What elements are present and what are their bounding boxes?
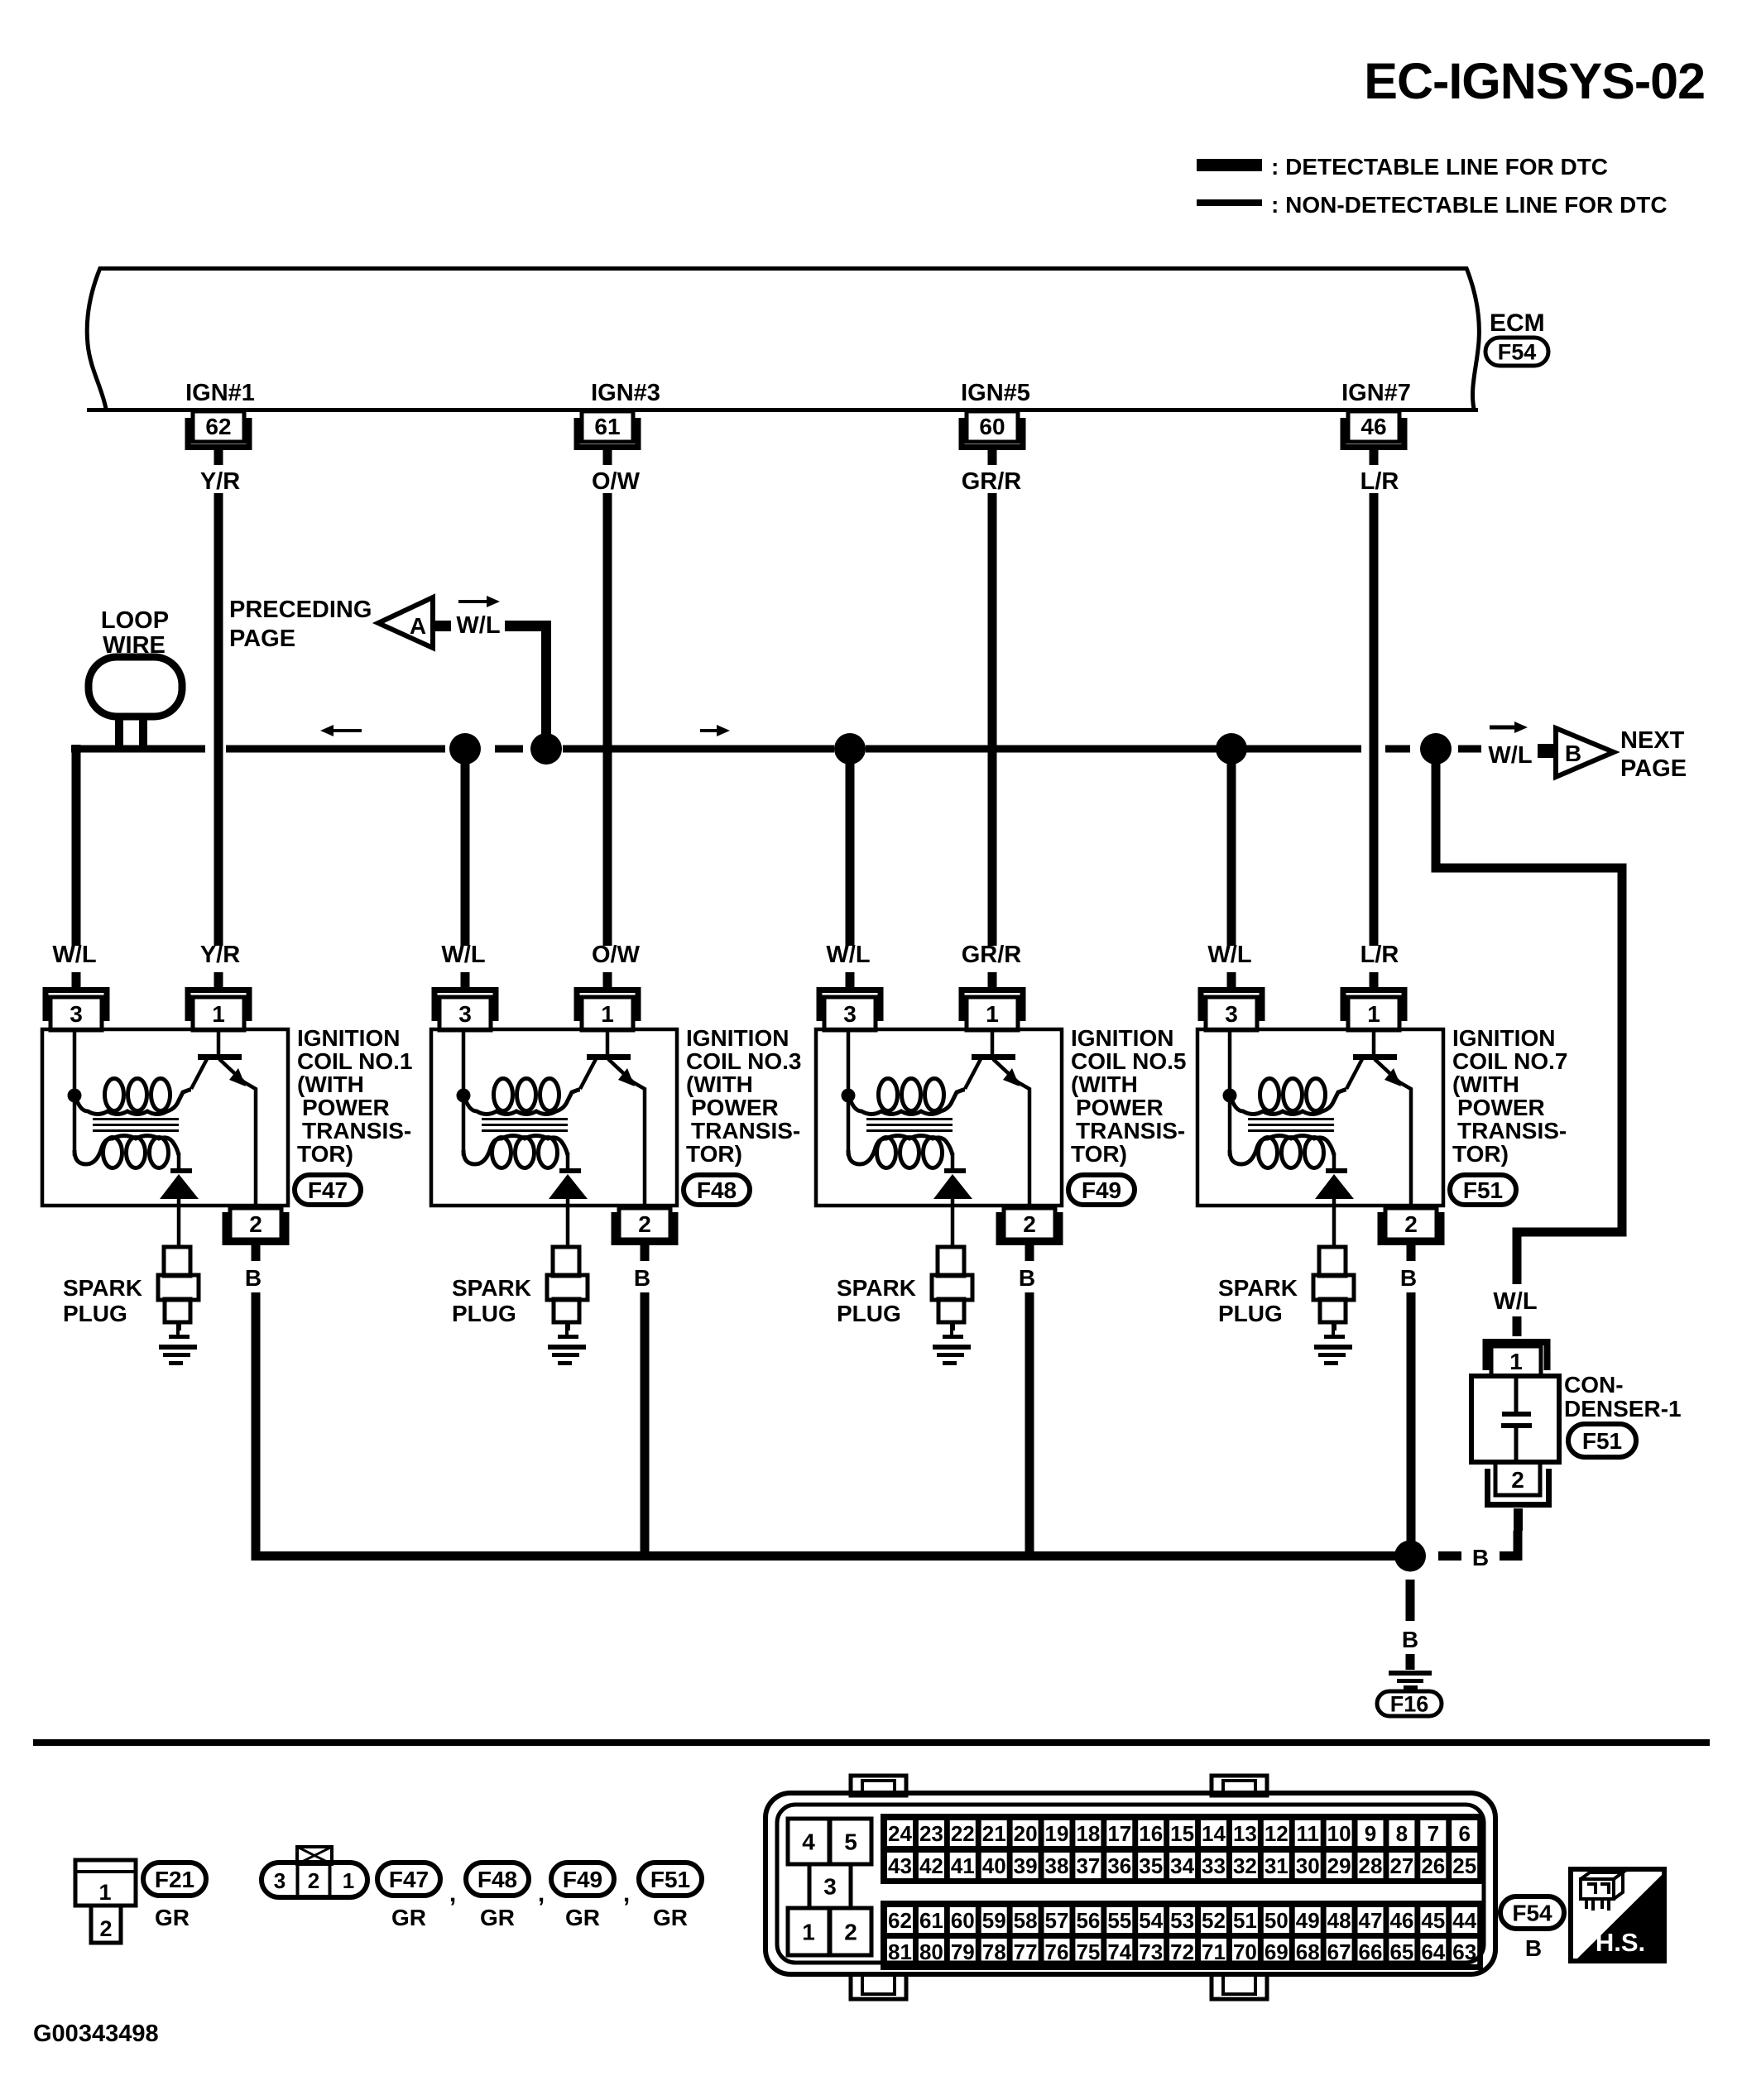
svg-text:A: A (410, 613, 426, 639)
svg-text:3: 3 (458, 1001, 472, 1027)
svg-text:30: 30 (1296, 1853, 1320, 1878)
svg-text:SPARK: SPARK (837, 1275, 916, 1301)
svg-text:2: 2 (638, 1211, 651, 1237)
svg-text:41: 41 (951, 1853, 975, 1878)
svg-text:37: 37 (1076, 1853, 1100, 1878)
svg-text:GR: GR (155, 1905, 190, 1930)
svg-text:IGN#5: IGN#5 (961, 380, 1030, 406)
svg-text:F54: F54 (1512, 1901, 1552, 1926)
svg-text:2: 2 (249, 1211, 262, 1237)
svg-text:TRANSIS-: TRANSIS- (302, 1118, 411, 1143)
svg-text:62: 62 (888, 1908, 912, 1933)
svg-text:80: 80 (919, 1939, 943, 1964)
svg-text:F51: F51 (650, 1867, 690, 1892)
svg-text:65: 65 (1389, 1939, 1413, 1964)
svg-text:2: 2 (99, 1916, 112, 1941)
svg-text:8: 8 (1396, 1821, 1408, 1846)
svg-text:47: 47 (1359, 1908, 1383, 1933)
svg-text:,: , (623, 1880, 630, 1907)
svg-text:IGNITION: IGNITION (1071, 1025, 1173, 1051)
svg-text:39: 39 (1014, 1853, 1038, 1878)
svg-text:51: 51 (1233, 1908, 1257, 1933)
svg-text:F48: F48 (477, 1867, 517, 1892)
svg-text:56: 56 (1076, 1908, 1100, 1933)
svg-text:2: 2 (1023, 1211, 1036, 1237)
svg-text:21: 21 (982, 1821, 1006, 1846)
svg-text:38: 38 (1045, 1853, 1069, 1878)
svg-text:9: 9 (1365, 1821, 1376, 1846)
svg-text:16: 16 (1139, 1821, 1163, 1846)
svg-text:(WITH: (WITH (686, 1072, 753, 1097)
svg-text:B: B (1019, 1265, 1035, 1291)
svg-text:EC-IGNSYS-02: EC-IGNSYS-02 (1364, 53, 1705, 109)
svg-text:B: B (1565, 741, 1581, 766)
svg-text:13: 13 (1233, 1821, 1257, 1846)
svg-text:O/W: O/W (592, 942, 641, 968)
svg-text:COIL NO.1: COIL NO.1 (297, 1048, 413, 1074)
svg-text:3: 3 (274, 1868, 286, 1893)
svg-text:12: 12 (1265, 1821, 1289, 1846)
svg-text:COIL NO.7: COIL NO.7 (1452, 1048, 1568, 1074)
svg-text:2: 2 (1511, 1467, 1524, 1493)
svg-text:,: , (449, 1880, 456, 1907)
svg-text:3: 3 (843, 1001, 857, 1027)
svg-text:46: 46 (1360, 414, 1386, 439)
svg-text:1: 1 (986, 1001, 999, 1027)
svg-text:1: 1 (802, 1920, 815, 1945)
svg-text:F48: F48 (697, 1177, 737, 1203)
svg-text:1: 1 (343, 1868, 354, 1893)
svg-text:29: 29 (1327, 1853, 1351, 1878)
svg-text:F47: F47 (308, 1177, 348, 1203)
svg-text:2: 2 (308, 1868, 319, 1893)
svg-text:4: 4 (802, 1829, 815, 1855)
svg-text:F51: F51 (1463, 1177, 1503, 1203)
svg-text:TOR): TOR) (1452, 1141, 1509, 1167)
svg-text:POWER: POWER (302, 1095, 390, 1120)
svg-text:61: 61 (919, 1908, 943, 1933)
svg-text:1: 1 (1367, 1001, 1380, 1027)
svg-text:79: 79 (951, 1939, 975, 1964)
svg-text:1: 1 (1509, 1349, 1523, 1374)
svg-text:23: 23 (919, 1821, 943, 1846)
svg-text:IGN#3: IGN#3 (591, 380, 660, 406)
svg-text:L/R: L/R (1360, 468, 1399, 495)
svg-text:: NON-DETECTABLE LINE FOR DTC: : NON-DETECTABLE LINE FOR DTC (1271, 192, 1668, 218)
svg-text:46: 46 (1389, 1908, 1413, 1933)
svg-text:63: 63 (1452, 1939, 1476, 1964)
svg-text:COIL NO.3: COIL NO.3 (686, 1048, 802, 1074)
svg-text:F51: F51 (1582, 1428, 1622, 1454)
svg-text:3: 3 (70, 1001, 83, 1027)
svg-text:L/R: L/R (1360, 942, 1399, 968)
svg-text:F47: F47 (389, 1867, 429, 1892)
svg-text:IGNITION: IGNITION (1452, 1025, 1555, 1051)
svg-text:GR: GR (653, 1905, 688, 1930)
svg-text:36: 36 (1107, 1853, 1131, 1878)
svg-text:71: 71 (1202, 1939, 1226, 1964)
svg-text:5: 5 (844, 1829, 857, 1855)
svg-text:B: B (245, 1265, 262, 1291)
svg-text:33: 33 (1202, 1853, 1226, 1878)
svg-text:B: B (1400, 1265, 1417, 1291)
svg-text:GR: GR (565, 1905, 600, 1930)
svg-text:10: 10 (1327, 1821, 1351, 1846)
svg-text:F49: F49 (1082, 1177, 1121, 1203)
svg-text:(WITH: (WITH (297, 1072, 364, 1097)
svg-text:1: 1 (212, 1001, 225, 1027)
svg-text:27: 27 (1389, 1853, 1413, 1878)
svg-text:24: 24 (888, 1821, 912, 1846)
svg-text:DENSER-1: DENSER-1 (1564, 1396, 1682, 1422)
svg-text:GR/R: GR/R (962, 942, 1022, 968)
svg-text:1: 1 (601, 1001, 614, 1027)
svg-text:W/L: W/L (456, 612, 500, 639)
svg-text:W/L: W/L (1493, 1288, 1537, 1315)
svg-text:POWER: POWER (691, 1095, 779, 1120)
svg-text:60: 60 (951, 1908, 975, 1933)
svg-text:17: 17 (1107, 1821, 1131, 1846)
svg-text:81: 81 (888, 1939, 912, 1964)
svg-text:35: 35 (1139, 1853, 1163, 1878)
svg-text:SPARK: SPARK (1218, 1275, 1298, 1301)
svg-text:61: 61 (594, 414, 620, 439)
svg-text:48: 48 (1327, 1908, 1351, 1933)
svg-text:B: B (1525, 1935, 1542, 1961)
svg-text:2: 2 (1404, 1211, 1418, 1237)
svg-text:3: 3 (823, 1874, 837, 1900)
svg-text:3: 3 (1225, 1001, 1238, 1027)
svg-text:(WITH: (WITH (1071, 1072, 1138, 1097)
svg-text:32: 32 (1233, 1853, 1257, 1878)
svg-text:: DETECTABLE LINE FOR DTC: : DETECTABLE LINE FOR DTC (1271, 154, 1608, 180)
svg-text:64: 64 (1421, 1939, 1445, 1964)
svg-text:TRANSIS-: TRANSIS- (691, 1118, 800, 1143)
svg-text:TOR): TOR) (1071, 1141, 1127, 1167)
svg-text:TOR): TOR) (297, 1141, 353, 1167)
svg-text:53: 53 (1170, 1908, 1194, 1933)
svg-text:70: 70 (1233, 1939, 1257, 1964)
svg-text:NEXT: NEXT (1620, 727, 1685, 754)
svg-text:ECM: ECM (1490, 309, 1545, 337)
svg-text:PLUG: PLUG (1218, 1301, 1283, 1326)
svg-text:74: 74 (1107, 1939, 1131, 1964)
svg-text:19: 19 (1045, 1821, 1069, 1846)
svg-text:F49: F49 (563, 1867, 602, 1892)
svg-text:49: 49 (1296, 1908, 1320, 1933)
svg-text:F16: F16 (1390, 1692, 1429, 1717)
svg-text:40: 40 (982, 1853, 1006, 1878)
svg-text:57: 57 (1045, 1908, 1069, 1933)
svg-text:SPARK: SPARK (452, 1275, 531, 1301)
svg-text:TRANSIS-: TRANSIS- (1076, 1118, 1185, 1143)
svg-text:F54: F54 (1498, 340, 1537, 365)
svg-text:60: 60 (979, 414, 1005, 439)
svg-text:72: 72 (1170, 1939, 1194, 1964)
svg-text:IGN#7: IGN#7 (1341, 380, 1411, 406)
svg-text:78: 78 (982, 1939, 1006, 1964)
svg-text:58: 58 (1014, 1908, 1038, 1933)
svg-text:IGNITION: IGNITION (297, 1025, 400, 1051)
svg-text:45: 45 (1421, 1908, 1445, 1933)
svg-text:52: 52 (1202, 1908, 1226, 1933)
svg-text:14: 14 (1202, 1821, 1226, 1846)
svg-text:25: 25 (1452, 1853, 1476, 1878)
svg-text:PLUG: PLUG (837, 1301, 901, 1326)
svg-text:LOOP: LOOP (101, 607, 169, 634)
svg-text:31: 31 (1265, 1853, 1289, 1878)
svg-text:75: 75 (1076, 1939, 1100, 1964)
svg-text:68: 68 (1296, 1939, 1320, 1964)
svg-text:PAGE: PAGE (229, 626, 295, 652)
svg-text:GR/R: GR/R (962, 468, 1022, 495)
svg-text:PAGE: PAGE (1620, 755, 1687, 782)
svg-text:B: B (1402, 1627, 1418, 1652)
svg-text:2: 2 (844, 1920, 857, 1945)
svg-text:POWER: POWER (1076, 1095, 1164, 1120)
svg-text:Y/R: Y/R (200, 468, 240, 495)
svg-text:34: 34 (1170, 1853, 1194, 1878)
svg-text:W/L: W/L (1488, 742, 1532, 769)
svg-text:22: 22 (951, 1821, 975, 1846)
svg-text:66: 66 (1359, 1939, 1383, 1964)
svg-text:IGNITION: IGNITION (686, 1025, 789, 1051)
svg-text:TRANSIS-: TRANSIS- (1457, 1118, 1567, 1143)
svg-text:6: 6 (1458, 1821, 1470, 1846)
svg-text:50: 50 (1265, 1908, 1289, 1933)
svg-text:1: 1 (98, 1880, 111, 1905)
svg-text:18: 18 (1076, 1821, 1100, 1846)
svg-text:73: 73 (1139, 1939, 1163, 1964)
svg-text:44: 44 (1452, 1908, 1476, 1933)
svg-text:Y/R: Y/R (200, 942, 240, 968)
svg-text:26: 26 (1421, 1853, 1445, 1878)
svg-text:POWER: POWER (1457, 1095, 1545, 1120)
svg-text:69: 69 (1265, 1939, 1289, 1964)
svg-text:11: 11 (1296, 1821, 1319, 1846)
svg-text:15: 15 (1170, 1821, 1194, 1846)
svg-text:62: 62 (205, 414, 231, 439)
svg-text:76: 76 (1045, 1939, 1069, 1964)
svg-text:TOR): TOR) (686, 1141, 742, 1167)
svg-text:GR: GR (391, 1905, 426, 1930)
svg-text:(WITH: (WITH (1452, 1072, 1519, 1097)
svg-text:54: 54 (1139, 1908, 1163, 1933)
svg-text:77: 77 (1014, 1939, 1038, 1964)
svg-text:F21: F21 (155, 1867, 194, 1892)
svg-text:CON-: CON- (1564, 1372, 1624, 1398)
svg-text:B: B (1472, 1545, 1489, 1570)
svg-text:COIL NO.5: COIL NO.5 (1071, 1048, 1187, 1074)
svg-text:,: , (538, 1880, 545, 1907)
svg-text:59: 59 (982, 1908, 1006, 1933)
svg-text:20: 20 (1014, 1821, 1038, 1846)
svg-text:SPARK: SPARK (63, 1275, 142, 1301)
svg-text:PRECEDING: PRECEDING (229, 597, 372, 623)
svg-text:67: 67 (1327, 1939, 1351, 1964)
svg-text:55: 55 (1107, 1908, 1131, 1933)
svg-text:B: B (634, 1265, 650, 1291)
svg-text:PLUG: PLUG (452, 1301, 516, 1326)
svg-text:28: 28 (1359, 1853, 1383, 1878)
svg-text:43: 43 (888, 1853, 912, 1878)
svg-text:7: 7 (1428, 1821, 1439, 1846)
svg-text:GR: GR (480, 1905, 515, 1930)
svg-text:IGN#1: IGN#1 (185, 380, 255, 406)
svg-text:H.S.: H.S. (1596, 1928, 1645, 1957)
svg-text:G00343498: G00343498 (33, 2021, 159, 2047)
svg-text:42: 42 (919, 1853, 943, 1878)
svg-text:O/W: O/W (592, 468, 641, 495)
svg-text:PLUG: PLUG (63, 1301, 127, 1326)
